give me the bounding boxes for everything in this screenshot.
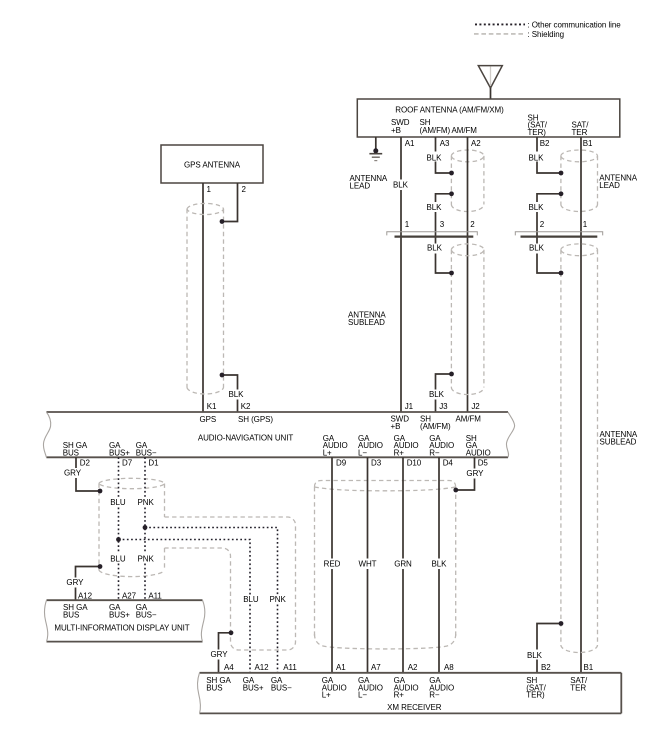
svg-text:A2: A2 [471, 139, 481, 148]
svg-text:R+: R+ [394, 448, 405, 457]
svg-text:2: 2 [540, 220, 545, 229]
svg-text:AM/FM: AM/FM [456, 415, 482, 424]
wire SH(GPS) top [223, 183, 238, 222]
svg-text:SUBLEAD: SUBLEAD [348, 318, 385, 327]
svg-text:(AM/FM): (AM/FM) [420, 126, 451, 135]
svg-text:A11: A11 [283, 663, 297, 672]
svg-text:LEAD: LEAD [350, 182, 371, 191]
label antenna lead left [350, 174, 388, 190]
svg-text:A27: A27 [122, 592, 137, 601]
pin label GA AUDIO L- [358, 434, 383, 457]
svg-text:GRY: GRY [466, 469, 484, 478]
svg-text:D4: D4 [443, 458, 454, 467]
svg-text:A1: A1 [336, 663, 346, 672]
pin label SAT/TER [572, 121, 590, 137]
antenna symbol [478, 66, 502, 99]
svg-text:LEAD: LEAD [599, 181, 620, 190]
pin label GA BUS+ [109, 603, 130, 619]
legend other communication line sample [475, 23, 525, 25]
svg-text:A4: A4 [224, 663, 234, 672]
svg-text:L−: L− [358, 448, 367, 457]
wire GPS [202, 183, 204, 412]
shield GPS capsule [187, 203, 224, 394]
svg-text:TER): TER) [526, 691, 545, 700]
svg-text:AUDIO-NAVIGATION UNIT: AUDIO-NAVIGATION UNIT [198, 434, 294, 443]
svg-text:1: 1 [207, 185, 212, 194]
svg-text:A11: A11 [148, 592, 162, 601]
wire A1 SWD+B BLK [400, 137, 402, 412]
svg-text:K2: K2 [241, 402, 251, 411]
svg-text:2: 2 [470, 220, 475, 229]
svg-text:B1: B1 [584, 663, 594, 672]
svg-text:L+: L+ [322, 691, 331, 700]
svg-text:: Other communication line: : Other communication line [528, 20, 622, 29]
svg-text:J1: J1 [405, 402, 414, 411]
svg-text:2: 2 [242, 185, 247, 194]
svg-text:TER): TER) [528, 128, 547, 137]
wire B2 BLK lower [537, 194, 561, 273]
inline connector right [515, 232, 602, 237]
svg-text:R−: R− [429, 691, 440, 700]
svg-text:BLK: BLK [427, 244, 443, 253]
svg-text:J2: J2 [471, 402, 480, 411]
svg-text:J3: J3 [439, 402, 448, 411]
svg-text:SUBLEAD: SUBLEAD [600, 437, 637, 446]
label antenna sublead right [600, 430, 638, 446]
pin label GA AUDIO R+ [394, 676, 419, 700]
svg-text:A12: A12 [78, 592, 93, 601]
svg-text:GPS: GPS [200, 415, 217, 424]
svg-text:A2: A2 [408, 663, 418, 672]
svg-text:BUS+: BUS+ [109, 448, 130, 457]
svg-text:(AM/FM): (AM/FM) [420, 422, 451, 431]
pin label GA AUDIO L- [358, 676, 383, 700]
wire A3 SH(AM/FM) BLK upper [436, 137, 452, 173]
svg-text:BLK: BLK [427, 153, 443, 162]
svg-text:GRY: GRY [211, 650, 229, 659]
wire PNK branch to XM [145, 528, 278, 673]
wire BLU branch to XM [119, 540, 251, 673]
svg-text:PNK: PNK [137, 498, 154, 507]
svg-text:B2: B2 [540, 139, 550, 148]
pin label GA AUDIO R+ [394, 434, 419, 457]
svg-text:AUDIO: AUDIO [466, 448, 491, 457]
wire SH(GPS) bottom BLK [222, 375, 238, 412]
svg-text:R+: R+ [394, 691, 405, 700]
roof antenna unit box [357, 99, 620, 137]
wire B2 SH(SAT/TER) BLK upper [537, 137, 561, 173]
svg-text:B2: B2 [541, 663, 551, 672]
svg-text:B1: B1 [583, 139, 593, 148]
svg-text:BLK: BLK [427, 203, 443, 212]
svg-text:BUS: BUS [63, 448, 79, 457]
svg-text:BUS+: BUS+ [109, 611, 130, 620]
svg-text:MULTI-INFORMATION DISPLAY UNIT: MULTI-INFORMATION DISPLAY UNIT [54, 624, 189, 633]
wire GA BUS- PNK dotted [144, 457, 146, 600]
svg-text:BLK: BLK [529, 203, 545, 212]
svg-text:BUS−: BUS− [271, 683, 292, 692]
wire D3-A7 WHT [367, 457, 369, 673]
svg-text:A7: A7 [371, 663, 381, 672]
pin label GA BUS- [271, 676, 292, 692]
pin label SH GA BUS [206, 676, 231, 692]
svg-text:3: 3 [440, 220, 445, 229]
pin label SH (AM/FM) [420, 118, 451, 135]
svg-text:D5: D5 [478, 458, 489, 467]
wire D5 GRY [456, 457, 475, 490]
svg-text:BLK: BLK [429, 390, 445, 399]
svg-text:BUS−: BUS− [136, 448, 157, 457]
pin label SAT/TER [570, 676, 588, 692]
inline connector left [387, 232, 478, 237]
svg-text:BLU: BLU [110, 498, 126, 507]
wire A3 BLK lower [436, 194, 452, 273]
svg-text:BLU: BLU [110, 554, 126, 563]
svg-text:A3: A3 [440, 139, 450, 148]
junction and shield dots overlay [98, 171, 564, 636]
svg-text:L−: L− [358, 691, 367, 700]
wire B2 BLK to XM [537, 624, 561, 673]
svg-text:A12: A12 [255, 663, 270, 672]
svg-text:BUS: BUS [63, 611, 79, 620]
wire A12 GRY [76, 567, 101, 601]
pin label SH (SAT/TER) [528, 113, 548, 137]
svg-text:BLK: BLK [527, 651, 543, 660]
svg-text:PNK: PNK [269, 595, 286, 604]
wire D2 GRY [76, 457, 101, 491]
svg-text:AM/FM: AM/FM [452, 126, 478, 135]
pin label GA AUDIO R- [429, 434, 454, 457]
wire B1 SAT/TER [580, 137, 582, 673]
legend shielding sample [474, 33, 523, 35]
svg-text:GRN: GRN [394, 559, 412, 568]
svg-text:BLK: BLK [229, 390, 245, 399]
pin label SH (AM/FM) [420, 415, 451, 431]
svg-text:ROOF ANTENNA (AM/FM/XM): ROOF ANTENNA (AM/FM/XM) [395, 106, 504, 115]
multi-information display unit box [44, 600, 205, 641]
pin label GA BUS+ [109, 441, 130, 457]
shield GA BUS capsule [99, 478, 165, 576]
pin label GA AUDIO L+ [322, 676, 347, 700]
label antenna lead right [599, 174, 637, 190]
label antenna sublead left [348, 311, 386, 327]
wire GA BUS+ BLU dotted [118, 457, 120, 600]
svg-text:A1: A1 [405, 139, 415, 148]
shield lead AM/FM capsule [451, 150, 484, 212]
pin label GA AUDIO R- [429, 676, 454, 700]
shield sublead SAT/TER capsule [561, 244, 598, 653]
svg-text:D1: D1 [148, 458, 159, 467]
svg-text:A8: A8 [444, 663, 454, 672]
shield sublead AM/FM capsule [451, 244, 484, 395]
svg-text:RED: RED [324, 559, 341, 568]
wire A4 GRY [219, 633, 232, 673]
wire D4-A8 BLK [438, 457, 440, 673]
shielding staircase outline [165, 517, 296, 650]
wire D10-A2 GRN [402, 457, 404, 673]
svg-text:BUS: BUS [206, 683, 222, 692]
svg-text:GRY: GRY [64, 468, 82, 477]
svg-text:TER: TER [570, 683, 586, 692]
pin label SWD +B [391, 415, 410, 431]
svg-text:BLU: BLU [243, 595, 259, 604]
svg-text:: Shielding: : Shielding [528, 30, 564, 39]
svg-text:BLK: BLK [393, 181, 409, 190]
svg-text:+B: +B [391, 422, 401, 431]
svg-text:D9: D9 [336, 458, 347, 467]
svg-text:PNK: PNK [137, 554, 154, 563]
wire J3 BLK bottom [436, 374, 452, 412]
pin label GA BUS- [136, 441, 157, 457]
svg-text:D7: D7 [122, 458, 133, 467]
svg-text:K1: K1 [207, 402, 217, 411]
shield lead SAT/TER capsule [561, 150, 598, 212]
svg-text:R−: R− [429, 448, 440, 457]
svg-text:BUS−: BUS− [136, 611, 157, 620]
audio-navigation unit band [43, 412, 514, 457]
pin label GA BUS- [136, 603, 157, 619]
svg-text:D2: D2 [80, 458, 91, 467]
svg-text:TER: TER [572, 128, 588, 137]
pin label SH GA BUS [63, 441, 88, 457]
wire A2 AM/FM [467, 137, 469, 412]
pin label GA BUS+ [243, 676, 264, 692]
svg-text:GRY: GRY [66, 578, 84, 587]
pin label SH GA BUS [63, 603, 88, 619]
GPS antenna box [161, 145, 263, 183]
XM receiver box [197, 673, 621, 714]
svg-text:BLK: BLK [432, 559, 448, 568]
pin label GA AUDIO L+ [323, 434, 348, 457]
pin label SH (SAT/TER) [526, 676, 546, 700]
pin label SWD +B [391, 118, 410, 135]
pin label SH GA AUDIO [466, 434, 491, 457]
svg-text:L+: L+ [323, 448, 332, 457]
svg-text:BLK: BLK [529, 153, 545, 162]
svg-text:WHT: WHT [359, 559, 377, 568]
ground [369, 137, 382, 161]
svg-text:D10: D10 [407, 458, 422, 467]
svg-text:BUS+: BUS+ [243, 683, 264, 692]
shield GA AUDIO capsule [315, 481, 456, 649]
wire D9-A1 RED [331, 457, 333, 673]
svg-text:1: 1 [583, 220, 588, 229]
svg-text:1: 1 [405, 220, 410, 229]
svg-text:SH (GPS): SH (GPS) [238, 415, 273, 424]
svg-text:XM RECEIVER: XM RECEIVER [387, 703, 442, 712]
svg-text:GPS ANTENNA: GPS ANTENNA [184, 160, 241, 169]
svg-text:+B: +B [391, 126, 401, 135]
svg-text:D3: D3 [371, 458, 382, 467]
svg-text:BLK: BLK [529, 244, 545, 253]
